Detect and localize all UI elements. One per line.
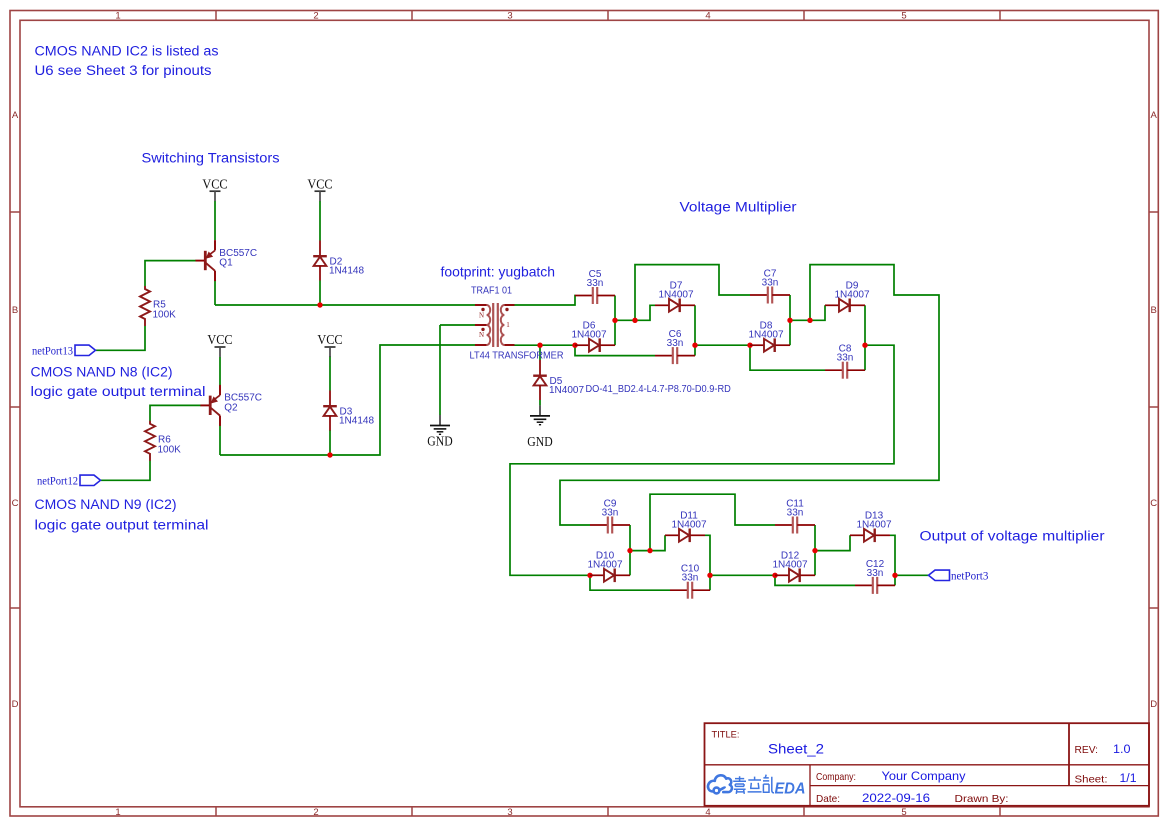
svg-text:B: B bbox=[12, 305, 18, 316]
svg-text:Your Company: Your Company bbox=[882, 769, 967, 783]
wire node 3 to C8 left bbox=[750, 345, 825, 370]
capacitor C11 bbox=[775, 517, 815, 534]
svg-text:1N4007: 1N4007 bbox=[856, 520, 891, 531]
junction at (895,575.3) bbox=[892, 573, 897, 578]
svg-text:CMOS NAND IC2 is listed as: CMOS NAND IC2 is listed as bbox=[35, 44, 219, 60]
diode D6 bbox=[575, 338, 615, 352]
wire node 2 to D7 anode bbox=[635, 305, 655, 320]
svg-text:C: C bbox=[12, 498, 19, 509]
wire Q1 collector down bbox=[214, 280, 216, 305]
transistor Q2 BC557C PNP bbox=[200, 385, 220, 426]
svg-text:N: N bbox=[479, 311, 484, 319]
ground symbol at x=440 bbox=[430, 415, 450, 434]
wire Q1 base to R5 top bbox=[145, 261, 196, 286]
wire Q2 base to R6 top bbox=[150, 405, 201, 421]
svg-text:LT44 TRANSFORMER: LT44 TRANSFORMER bbox=[470, 350, 564, 361]
diode D5 bbox=[533, 360, 547, 400]
svg-text:1: 1 bbox=[115, 10, 120, 21]
diode D8 bbox=[750, 338, 790, 352]
svg-text:3: 3 bbox=[507, 807, 512, 818]
svg-text:netPort12: netPort12 bbox=[37, 474, 78, 488]
svg-text:GND: GND bbox=[527, 435, 552, 450]
svg-text:footprint: yugbatch: footprint: yugbatch bbox=[441, 264, 556, 279]
svg-text:100K: 100K bbox=[158, 444, 182, 455]
wire transformer center tap bbox=[440, 324, 475, 326]
svg-text:5: 5 bbox=[901, 10, 906, 21]
svg-text:1N4007: 1N4007 bbox=[772, 560, 807, 571]
svg-text:2: 2 bbox=[313, 10, 318, 21]
wire transformer secondary top to C5 bbox=[515, 296, 576, 306]
svg-text:1: 1 bbox=[115, 807, 120, 818]
svg-text:3: 3 bbox=[507, 10, 512, 21]
wire node 3 to D8 anode bbox=[695, 344, 750, 346]
wire D7 cathode to C6 right bbox=[694, 305, 696, 355]
svg-text:Date:: Date: bbox=[816, 794, 840, 805]
svg-text:1: 1 bbox=[506, 321, 510, 329]
junction at (650,550.6) bbox=[647, 548, 652, 553]
diode D10 bbox=[590, 569, 630, 583]
diode D7 bbox=[655, 299, 695, 313]
capacitor C7 bbox=[750, 287, 790, 304]
logo text 嘉立创 (drawn strokes) bbox=[733, 775, 774, 794]
wire center tap to GND bbox=[439, 325, 441, 415]
wire node 10 to D13 anode bbox=[815, 535, 850, 550]
EasyEDA JLC logo cloud icon bbox=[708, 775, 732, 793]
svg-text:4: 4 bbox=[705, 10, 710, 21]
junction at (575,345.2) bbox=[572, 343, 577, 348]
diode D12 bbox=[775, 569, 815, 583]
diode D3 bbox=[323, 391, 337, 431]
transistor Q1 BC557C PNP bbox=[196, 240, 216, 281]
net port netPort3 bbox=[929, 570, 950, 580]
svg-text:CMOS NAND N9 (IC2): CMOS NAND N9 (IC2) bbox=[35, 497, 177, 513]
svg-text:D: D bbox=[12, 699, 19, 710]
junction at (330,455) bbox=[327, 452, 332, 457]
junction at (320,305) bbox=[317, 302, 322, 307]
svg-text:netPort13: netPort13 bbox=[32, 344, 73, 358]
net port netPort12 bbox=[80, 475, 101, 485]
capacitor C6 bbox=[655, 347, 695, 364]
capacitor C12 bbox=[855, 577, 895, 594]
wire Q2 collector down bbox=[219, 426, 221, 456]
wire D13 cathode to C12 right bbox=[890, 535, 895, 585]
wire node to C6 left bbox=[575, 345, 655, 355]
frame column labels top bbox=[115, 10, 906, 21]
junction at (630,550.6) bbox=[627, 548, 632, 553]
svg-text:Output of voltage multiplier: Output of voltage multiplier bbox=[920, 529, 1105, 545]
svg-text:33n: 33n bbox=[837, 353, 854, 364]
junction at (810,320.3) bbox=[807, 318, 812, 323]
svg-text:1/1: 1/1 bbox=[1120, 771, 1137, 785]
svg-text:TRAF1 01: TRAF1 01 bbox=[471, 286, 512, 297]
wire D3 cathode to node bbox=[329, 430, 331, 455]
svg-text:A: A bbox=[1151, 110, 1158, 121]
svg-text:1N4007: 1N4007 bbox=[549, 385, 584, 396]
wire VCC to Q1 emitter bbox=[214, 201, 216, 240]
svg-text:D: D bbox=[1150, 699, 1157, 710]
svg-text:33n: 33n bbox=[667, 338, 684, 349]
wire node 4 to D9 anode bbox=[810, 305, 825, 320]
svg-text:33n: 33n bbox=[602, 507, 619, 518]
svg-text:1.0: 1.0 bbox=[1113, 742, 1131, 756]
svg-text:N: N bbox=[479, 331, 484, 339]
svg-text:1N4007: 1N4007 bbox=[658, 290, 693, 301]
junction at (775,575.3) bbox=[772, 573, 777, 578]
svg-text:33n: 33n bbox=[867, 568, 884, 579]
svg-text:1N4148: 1N4148 bbox=[339, 416, 374, 427]
frame column ticks top bbox=[216, 11, 1000, 21]
wire D11 cathode to C10 right bbox=[705, 535, 710, 590]
svg-text:Switching Transistors: Switching Transistors bbox=[142, 150, 280, 166]
power flag VCC at x=215 bbox=[202, 176, 227, 201]
junction at (710,575.3) bbox=[707, 573, 712, 578]
capacitor C8 bbox=[825, 362, 865, 379]
junction at (865,345.2) bbox=[862, 343, 867, 348]
svg-text:C: C bbox=[1150, 498, 1157, 509]
wire VCC to D3 bbox=[329, 356, 331, 391]
wire D5 cathode to GND bbox=[539, 400, 541, 405]
svg-text:DO-41_BD2.4-L4.7-P8.70-D0.9-RD: DO-41_BD2.4-L4.7-P8.70-D0.9-RD bbox=[586, 384, 731, 395]
svg-text:VCC: VCC bbox=[202, 176, 227, 191]
resistor R6 bbox=[145, 421, 155, 461]
frame row ticks right bbox=[1149, 212, 1158, 608]
svg-text:Q1: Q1 bbox=[219, 258, 233, 269]
svg-text:VCC: VCC bbox=[307, 176, 332, 191]
svg-text:U6 see Sheet 3 for pinouts: U6 see Sheet 3 for pinouts bbox=[35, 63, 212, 79]
svg-text:100K: 100K bbox=[153, 310, 177, 321]
svg-text:A: A bbox=[12, 110, 19, 121]
svg-text:TITLE:: TITLE: bbox=[712, 729, 740, 740]
wire R5 bottom to netPort13 bbox=[96, 326, 145, 350]
wire node 4 rail B to C9 left bbox=[560, 265, 939, 525]
diode D11 bbox=[665, 529, 705, 543]
junction at (635,320.3) bbox=[632, 318, 637, 323]
svg-text:33n: 33n bbox=[762, 277, 779, 288]
power flag VCC at x=220 bbox=[207, 332, 232, 357]
svg-text:1N4007: 1N4007 bbox=[571, 330, 606, 341]
junction at (695,345.2) bbox=[692, 343, 697, 348]
frame row ticks left bbox=[10, 212, 20, 608]
capacitor C5 bbox=[575, 287, 615, 304]
wire node 5 to C10 left bbox=[590, 575, 670, 590]
frame column labels bottom bbox=[115, 807, 906, 818]
svg-text:1N4007: 1N4007 bbox=[834, 290, 869, 301]
wire D9 cathode to C8 right bbox=[864, 305, 866, 370]
svg-text:VCC: VCC bbox=[317, 332, 342, 347]
svg-text:logic gate output terminal: logic gate output terminal bbox=[31, 384, 206, 400]
frame column ticks bottom bbox=[216, 807, 1000, 816]
resistor R5 bbox=[140, 286, 150, 326]
diode D2 bbox=[313, 241, 327, 281]
junction at (790,320.3) bbox=[787, 318, 792, 323]
junction at (540,345.2) bbox=[537, 343, 542, 348]
svg-text:Sheet_2: Sheet_2 bbox=[768, 742, 824, 758]
wire C7 right to D8 cathode bbox=[789, 295, 791, 345]
wire node 9 to D12 anode bbox=[710, 574, 775, 576]
title block frame bbox=[705, 723, 1150, 806]
svg-text:CMOS NAND N8 (IC2): CMOS NAND N8 (IC2) bbox=[31, 365, 173, 381]
svg-text:33n: 33n bbox=[787, 507, 804, 518]
wire R6 bottom to netPort12 bbox=[101, 461, 150, 481]
svg-text:B: B bbox=[1151, 305, 1157, 316]
svg-text:netPort3: netPort3 bbox=[951, 570, 989, 583]
svg-text:Company:: Company: bbox=[816, 772, 856, 783]
wire VCC to D2 bbox=[319, 201, 321, 241]
svg-text:4: 4 bbox=[705, 807, 710, 818]
svg-text:logic gate output terminal: logic gate output terminal bbox=[35, 518, 209, 534]
frame row labels left bbox=[12, 110, 19, 710]
svg-text:1N4007: 1N4007 bbox=[748, 330, 783, 341]
ground symbol at x=540 bbox=[530, 405, 550, 424]
diode D13 bbox=[850, 529, 890, 543]
power flag VCC at x=330 bbox=[317, 332, 342, 357]
svg-text:Drawn By:: Drawn By: bbox=[955, 794, 1009, 805]
wire D2 cathode to node bbox=[319, 281, 321, 306]
wire output node to netPort3 bbox=[895, 574, 929, 576]
wire node 9 to C12 left bbox=[775, 575, 855, 585]
svg-text:GND: GND bbox=[427, 434, 452, 449]
capacitor C9 bbox=[590, 517, 630, 534]
power flag VCC at x=320 bbox=[307, 176, 332, 201]
diode D9 bbox=[825, 299, 865, 313]
wire node 2 rail A to C7 left bbox=[615, 265, 750, 321]
wire node to D5 anode bbox=[539, 345, 541, 360]
svg-text:5: 5 bbox=[901, 807, 906, 818]
wire Q2 collector node to transformer pin 3 bbox=[220, 345, 475, 455]
wire node 5 to D10 anode bbox=[510, 345, 894, 575]
wire C9 right to D10 cathode bbox=[629, 525, 631, 575]
transformer T1 TRAF101 LT44 bbox=[475, 303, 515, 347]
svg-text:VCC: VCC bbox=[207, 332, 232, 347]
junction at (750,345.2) bbox=[747, 343, 752, 348]
wire node Q1 collector to transformer pin 1 bbox=[215, 304, 475, 306]
wire transformer secondary bottom bbox=[515, 344, 576, 346]
svg-text:Voltage Multiplier: Voltage Multiplier bbox=[680, 199, 797, 215]
junction at (615,320.3) bbox=[612, 318, 617, 323]
svg-text:Sheet:: Sheet: bbox=[1075, 774, 1108, 785]
junction at (590,575.3) bbox=[587, 573, 592, 578]
svg-text:1N4007: 1N4007 bbox=[671, 520, 706, 531]
svg-text:1N4148: 1N4148 bbox=[329, 266, 364, 277]
svg-text:REV:: REV: bbox=[1075, 745, 1099, 756]
svg-text:2022-09-16: 2022-09-16 bbox=[862, 791, 930, 805]
wire node 7 rail C to C11 left bbox=[630, 494, 775, 550]
svg-text:33n: 33n bbox=[587, 278, 604, 289]
junction at (815,550.6) bbox=[812, 548, 817, 553]
frame row labels right bbox=[1150, 110, 1157, 710]
net port netPort13 bbox=[75, 345, 96, 355]
wire node 7 to D11 anode bbox=[650, 535, 665, 550]
svg-text:1N4007: 1N4007 bbox=[587, 560, 622, 571]
svg-text:EDA: EDA bbox=[775, 780, 806, 797]
svg-text:2: 2 bbox=[313, 807, 318, 818]
svg-text:Q2: Q2 bbox=[224, 402, 238, 413]
wire C5 right to D6 cathode bbox=[614, 296, 616, 346]
svg-text:33n: 33n bbox=[682, 573, 699, 584]
wire C11 right to D12 cathode bbox=[814, 525, 816, 575]
wire VCC to Q2 emitter bbox=[219, 357, 221, 385]
capacitor C10 bbox=[670, 582, 710, 599]
